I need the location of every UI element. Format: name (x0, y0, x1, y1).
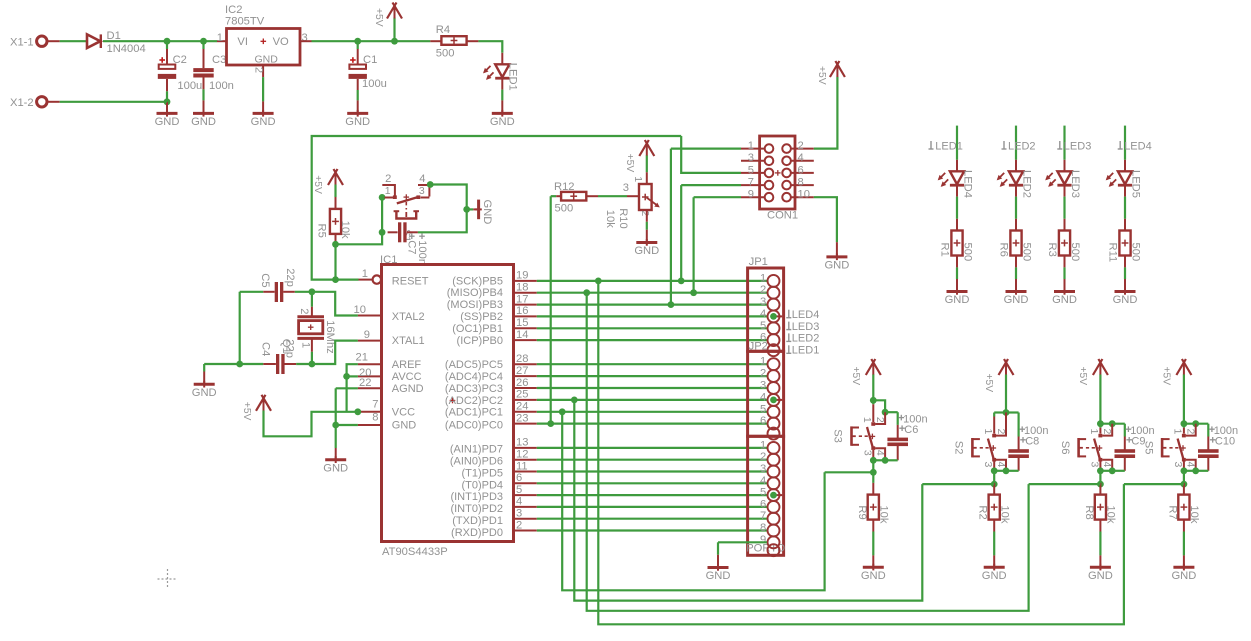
svg-text:IC2: IC2 (225, 4, 242, 16)
switch S5 pin3 lead (1182, 458, 1186, 462)
sheet origin cross (158, 578, 178, 580)
wire S5 rail (1184, 470, 1196, 472)
wire S3 rail (873, 459, 885, 461)
svg-text:C4: C4 (260, 342, 272, 356)
svg-text:AREF: AREF (392, 359, 422, 371)
svg-text:(AIN0)PD6: (AIN0)PD6 (450, 456, 503, 468)
wire crystal pin2 to net (311, 292, 313, 307)
svg-text:(ADC2)PC2: (ADC2)PC2 (445, 395, 503, 407)
junction S6 pin2 branch (1109, 420, 1116, 427)
wire CON1 pin1 MOSI (671, 148, 741, 150)
wire C8 to rail (1018, 456, 1020, 471)
svg-text:GND: GND (481, 200, 493, 225)
wire R4 to LED1 (478, 41, 502, 53)
capacitor C4 22p (240, 363, 264, 365)
svg-text:(TXD)PD1: (TXD)PD1 (452, 515, 503, 527)
wire PB0 row to JP1 pin6 (537, 339, 767, 341)
connector JP2 pins (768, 358, 780, 370)
wire net LED1 stub (956, 126, 958, 160)
svg-text:10: 10 (354, 304, 366, 316)
svg-text:1: 1 (299, 342, 311, 348)
ground below C1 (347, 112, 368, 115)
svg-text:10: 10 (798, 189, 810, 201)
svg-text:X1-2: X1-2 (10, 97, 34, 109)
switch S5 pin1 lead (1183, 424, 1185, 428)
svg-text:1: 1 (760, 272, 766, 284)
wire GND pin row (336, 424, 358, 426)
svg-text:R8: R8 (1083, 505, 1095, 519)
svg-text:+5V: +5V (850, 367, 861, 386)
CON1 right pads and stubs (791, 148, 814, 150)
junction PB3/CON1 riser (668, 301, 675, 308)
svg-text:5: 5 (760, 403, 766, 415)
wire net LED2 stub (1015, 126, 1017, 160)
junction S3 pin1 branch (870, 397, 877, 404)
svg-text:VCC: VCC (392, 407, 415, 419)
wire XTAL2 net row with C5 (240, 291, 264, 293)
svg-text:C5: C5 (259, 273, 271, 287)
wire +5V net IC2 to C1 to R4 (312, 40, 431, 42)
wire CON1 pin9 riser down to PB4 (692, 197, 694, 293)
wire R2 to ground (993, 520, 995, 532)
capacitor C8 100n (1008, 449, 1029, 453)
svg-text:26: 26 (516, 377, 528, 389)
wire +5V to VCC pin (264, 411, 358, 437)
svg-text:(INT1)PD3: (INT1)PD3 (450, 491, 503, 503)
svg-text:3: 3 (1088, 462, 1100, 468)
capacitor C5 22p (275, 282, 278, 302)
svg-text:13: 13 (516, 437, 528, 449)
svg-text:18: 18 (516, 282, 528, 294)
switch S6 pin4 lead (1102, 460, 1112, 471)
wire R12 to trimmer R10 (598, 195, 627, 197)
net label LED1 (930, 141, 932, 149)
IC2 pin 2 stub and label (262, 65, 264, 77)
net label LED2 (788, 333, 790, 341)
wire PC0 row to JP2 pin6 (537, 423, 767, 425)
svg-text:(OC1)PB1: (OC1)PB1 (452, 323, 503, 335)
svg-text:R2: R2 (977, 505, 989, 519)
switch S1 pin2 lead (382, 185, 395, 196)
switch S3 lever (867, 427, 873, 449)
wire C6 to rail (897, 444, 899, 460)
svg-text:10k: 10k (339, 221, 351, 239)
svg-text:GND: GND (345, 116, 370, 128)
svg-text:(AIN1)PD7: (AIN1)PD7 (450, 444, 503, 456)
junction S1 pin4 (427, 181, 434, 188)
resistor R8 10k (1095, 495, 1106, 520)
wire PD4 row to PORTD pin4 (537, 482, 767, 484)
wire C5 left down to C4 row (239, 292, 241, 364)
ground below R1 (947, 290, 968, 293)
svg-text:1: 1 (760, 439, 766, 451)
switch S3 bracket (850, 426, 853, 445)
svg-text:IC1: IC1 (380, 254, 397, 266)
svg-text:22p: 22p (283, 339, 295, 358)
switch S1 pin1 lead (385, 197, 394, 199)
svg-text:GND: GND (1004, 294, 1029, 306)
junction C7 left (379, 229, 386, 236)
junction PC2 switch riser (571, 397, 578, 404)
junction S3 rail (870, 457, 877, 464)
microcontroller IC1 AT90S4433P body (382, 265, 514, 542)
wire CON1 pin5 RESET (681, 136, 741, 173)
junction +5V at C1 (354, 38, 361, 45)
wire S3 exit run (825, 471, 874, 473)
capacitor C6 100n (887, 438, 908, 442)
switch S1 pin4 lead (418, 184, 429, 186)
svg-text:GND: GND (251, 116, 276, 128)
svg-text:+5V: +5V (241, 402, 252, 421)
wire S6 branch to pin2 and C9 (1100, 423, 1124, 425)
svg-text:12: 12 (516, 449, 528, 461)
svg-text:14: 14 (516, 329, 528, 341)
svg-text:4: 4 (1185, 462, 1197, 468)
svg-text:25: 25 (516, 389, 528, 401)
svg-text:XTAL1: XTAL1 (392, 335, 425, 347)
svg-text:100u: 100u (177, 80, 202, 92)
svg-text:S6: S6 (1059, 441, 1071, 455)
net label LED2 (1003, 141, 1005, 149)
wire PC4 row to JP2 pin2 (537, 375, 767, 377)
ground below R9 (863, 566, 884, 569)
svg-text:6: 6 (798, 164, 804, 176)
svg-text:C3: C3 (212, 54, 226, 66)
switch S2 lever (988, 439, 994, 461)
svg-text:5: 5 (760, 320, 766, 332)
svg-text:5: 5 (760, 487, 766, 499)
wire C9 to rail (1124, 456, 1126, 471)
connector PORTD body (748, 436, 784, 555)
svg-text:+5V: +5V (373, 8, 384, 27)
ground below R6 (1006, 290, 1027, 293)
svg-text:+5V: +5V (1161, 367, 1172, 386)
svg-text:4: 4 (798, 152, 804, 164)
svg-text:500: 500 (436, 47, 455, 59)
resistor R1 500 (951, 231, 962, 256)
wire R1 to ground (956, 256, 958, 268)
svg-text:LED3: LED3 (792, 321, 820, 333)
CON1 left pads and stubs (741, 148, 765, 150)
wire net LED4 stub (1124, 126, 1126, 160)
svg-text:C8: C8 (1025, 436, 1039, 448)
resistor R5 10k (335, 197, 337, 209)
svg-text:5: 5 (516, 484, 522, 496)
svg-text:GND: GND (192, 387, 217, 399)
svg-text:GND: GND (1171, 570, 1196, 582)
junction at sideways ground (463, 206, 470, 213)
svg-text:6: 6 (760, 415, 766, 427)
svg-text:2: 2 (1185, 429, 1197, 435)
svg-text:+5V: +5V (1077, 367, 1088, 386)
wire PD3 row to PORTD pin5 (537, 494, 767, 496)
wire S5 exit to resistor R7 (1183, 483, 1185, 484)
switch S1 lever (397, 197, 420, 204)
ground below R7 (1173, 566, 1194, 569)
capacitor C10 100n (1198, 449, 1219, 453)
svg-text:(SCK)PB5: (SCK)PB5 (452, 275, 503, 287)
junction JP1 pin4 pass-through (774, 315, 783, 317)
wire R7 to ground (1183, 520, 1185, 532)
svg-text:4: 4 (760, 475, 766, 487)
svg-text:3: 3 (302, 32, 308, 44)
junction S5 pin1 branch (1181, 420, 1188, 427)
junction S6 exit (1097, 481, 1104, 488)
svg-text:7: 7 (748, 177, 754, 189)
wire S2 rail (994, 470, 1006, 472)
svg-text:9: 9 (760, 534, 766, 546)
net label LED1 (788, 345, 790, 353)
wire S2 exit to resistor R2 (993, 483, 995, 484)
resistor R7 10k (1178, 495, 1189, 520)
svg-text:S5: S5 (1142, 441, 1154, 455)
wire GND row down to ground (335, 425, 337, 448)
svg-text:21: 21 (356, 352, 368, 364)
wire S6 rail to exit (1099, 471, 1101, 484)
junction S2 branch (1003, 409, 1010, 416)
wire to sideways ground (467, 208, 474, 210)
junction S3 exit (870, 469, 877, 476)
junction S3 pin2 branch (882, 409, 889, 416)
wire LED4 to R1 (956, 185, 958, 196)
svg-text:28: 28 (516, 353, 528, 365)
svg-text:JP2: JP2 (749, 340, 768, 352)
svg-text:2: 2 (385, 173, 391, 185)
switch S5 pin2 lead (1186, 424, 1196, 436)
voltage regulator IC2 7805TV (227, 29, 301, 66)
svg-text:GND: GND (634, 245, 659, 257)
svg-text:LED2: LED2 (792, 333, 820, 345)
+5V supply symbol at S5 (1176, 359, 1186, 375)
junction R5 bottom (332, 241, 339, 248)
wire PC5 row to JP2 pin1 (537, 363, 767, 365)
svg-text:3: 3 (760, 296, 766, 308)
net label LED4 (788, 310, 790, 318)
wire S3 rail to exit (872, 460, 874, 472)
wire PD7 row to PORTD pin1 (537, 447, 767, 449)
svg-text:1: 1 (1088, 429, 1100, 435)
svg-text:R9: R9 (856, 505, 868, 519)
svg-text:+5V: +5V (983, 374, 994, 393)
trimmer R10 10k (639, 184, 652, 210)
crystal Q1 16Mhz (297, 315, 324, 318)
svg-text:(ADC3)PC3: (ADC3)PC3 (445, 383, 503, 395)
resistor R11 500 (1119, 231, 1130, 256)
svg-text:GND: GND (155, 116, 180, 128)
svg-text:CON1: CON1 (767, 209, 798, 221)
svg-text:(MISO)PB4: (MISO)PB4 (447, 287, 503, 299)
svg-text:8: 8 (760, 522, 766, 534)
connector PORTD pins (768, 442, 780, 454)
junction crystal pin1 at C4 row (309, 361, 316, 368)
LED LED2 (1009, 171, 1023, 184)
svg-text:GND: GND (1052, 294, 1077, 306)
svg-text:3: 3 (861, 450, 873, 456)
wire CON1 pin1 riser down to PB3 (670, 149, 672, 305)
junction PORTD pin5 pass-through (774, 494, 783, 496)
svg-text:R4: R4 (436, 24, 450, 36)
svg-text:3: 3 (623, 182, 629, 194)
svg-text:2: 2 (798, 140, 804, 152)
wire PC3 row to JP2 pin3 (537, 387, 767, 389)
svg-text:+5V: +5V (312, 175, 323, 194)
svg-text:LED4: LED4 (792, 309, 820, 321)
svg-text:C1: C1 (363, 54, 377, 66)
svg-text:S3: S3 (832, 429, 844, 443)
svg-text:1: 1 (632, 176, 644, 182)
svg-text:(ADC4)PC4: (ADC4)PC4 (445, 371, 503, 383)
wire C10 to rail (1207, 456, 1209, 471)
ground below R10 (636, 241, 657, 244)
svg-text:3: 3 (982, 462, 994, 468)
svg-text:4: 4 (760, 391, 766, 403)
wire AGND net (336, 387, 358, 389)
svg-text:2: 2 (298, 308, 310, 314)
wire R10 pin2 to ground (646, 210, 648, 222)
svg-text:XTAL2: XTAL2 (392, 311, 425, 323)
junction S2 exit (991, 481, 998, 488)
LED LED5 (1118, 171, 1132, 184)
svg-text:500: 500 (961, 243, 973, 262)
svg-text:(ADC5)PC5: (ADC5)PC5 (445, 359, 503, 371)
svg-text:(RXD)PD0: (RXD)PD0 (451, 527, 503, 539)
+5V supply symbol at CON1 (830, 61, 840, 77)
wire R12 riser down to PC0 row (550, 196, 552, 423)
wire AREF net riser (347, 364, 358, 412)
junction S6 pin1 branch (1097, 420, 1104, 427)
svg-text:(INT0)PD2: (INT0)PD2 (450, 503, 503, 515)
+5V supply symbol at VCC (256, 395, 266, 411)
net label LED3 (1059, 141, 1061, 149)
wire S2 exit run (922, 483, 994, 485)
wire PB1 row to JP1 pin5 (537, 327, 767, 329)
svg-text:3: 3 (1172, 462, 1184, 468)
connector JP1 pins (768, 275, 780, 287)
wire RESET to IC1 pin1 (336, 279, 359, 281)
svg-text:VO: VO (273, 36, 289, 48)
svg-text:GND: GND (861, 570, 886, 582)
svg-text:1: 1 (760, 356, 766, 368)
svg-text:1: 1 (1172, 429, 1184, 435)
wire CON1 pin7 riser down to PB5 (680, 185, 682, 281)
ground below IC2 (253, 112, 274, 115)
switch S1 actuator (405, 202, 407, 210)
svg-text:22: 22 (359, 377, 371, 389)
svg-text:2: 2 (760, 451, 766, 463)
capacitor C9 100n (1115, 449, 1136, 453)
svg-text:3: 3 (748, 152, 754, 164)
svg-text:100n: 100n (209, 80, 234, 92)
wire C4 row to ground branch (204, 363, 240, 365)
connector JP2 body (748, 351, 784, 436)
svg-text:24: 24 (516, 401, 528, 413)
svg-text:GND: GND (191, 116, 216, 128)
junction VCC (354, 408, 361, 415)
switch S2 pin1 lead (993, 413, 995, 417)
IC1 pin1 inversion bubble (373, 275, 381, 283)
svg-text:LED3: LED3 (1069, 170, 1081, 198)
svg-text:1N4004: 1N4004 (107, 43, 146, 55)
wire switch S2 net riser from PC2 (574, 400, 922, 601)
wire S2 branch to C8 (1006, 411, 1019, 413)
wire S3 branch to pin2 (873, 400, 885, 412)
svg-text:GND: GND (1088, 570, 1113, 582)
svg-text:S2: S2 (953, 441, 965, 455)
switch S2 pin2 lead (996, 413, 1006, 436)
wire PORTD pin9 to ground (718, 541, 767, 543)
svg-text:GND: GND (323, 462, 348, 474)
svg-text:22p: 22p (284, 268, 296, 287)
wire S2 rail to exit (993, 471, 995, 484)
svg-text:8: 8 (798, 177, 804, 189)
svg-text:R7: R7 (1166, 505, 1178, 519)
junction PB5/CON1 riser (595, 278, 602, 285)
svg-text:+5V: +5V (624, 154, 635, 173)
junction PC1 switch riser (559, 408, 566, 415)
wire LED2 to R6 (1015, 185, 1017, 196)
svg-text:RESET: RESET (392, 275, 429, 287)
svg-text:27: 27 (516, 365, 528, 377)
wire VIN net D1 to IC2 pin1 (103, 40, 217, 42)
switch S3 pin3 lead (871, 446, 875, 450)
svg-text:4: 4 (1101, 462, 1113, 468)
switch S6 pin1 lead (1099, 424, 1101, 428)
LED LED1 (495, 64, 509, 77)
svg-text:AGND: AGND (392, 383, 424, 395)
wire S5 branch to pin2 and C10 (1184, 423, 1208, 425)
junction S5 pin2 branch (1192, 420, 1199, 427)
wire R6 to ground (1015, 256, 1017, 268)
resistor R3 500 (1059, 231, 1070, 256)
svg-text:C7: C7 (405, 240, 417, 254)
svg-text:7805TV: 7805TV (225, 15, 265, 27)
switch S6 pin3 lead (1098, 458, 1102, 462)
switch S2 pin3 lead (992, 458, 996, 462)
svg-text:LED2: LED2 (1020, 170, 1032, 198)
svg-text:100n: 100n (416, 240, 428, 265)
capacitor C7 100n (388, 231, 398, 233)
wire switch S3 net riser from PC1 (562, 412, 824, 591)
junction JP2 pin4 pass-through (774, 399, 783, 401)
wire CON1 pin2 to +5V (814, 77, 838, 149)
svg-text:15: 15 (516, 317, 528, 329)
svg-text:(ADC1)PC1: (ADC1)PC1 (445, 407, 503, 419)
svg-text:GND: GND (255, 54, 279, 66)
svg-text:3: 3 (760, 463, 766, 475)
svg-text:2: 2 (1101, 429, 1113, 435)
wire PC2 row to JP2 pin4 (537, 399, 767, 401)
svg-text:10k: 10k (878, 505, 890, 523)
svg-text:5: 5 (748, 164, 754, 176)
wire R5 bottom to switch S1 and C7 (336, 197, 383, 244)
svg-text:LED1: LED1 (792, 345, 820, 357)
capacitor C3 100n (202, 41, 204, 49)
junction RESET at R5 (332, 276, 339, 283)
svg-text:R6: R6 (997, 243, 1009, 257)
IC1 XTAL1 pin stub (358, 340, 382, 342)
wire R9 to ground (872, 520, 874, 532)
wire C4 to XTAL1 riser (296, 341, 358, 364)
svg-text:1: 1 (748, 140, 754, 152)
svg-text:16Mhz: 16Mhz (324, 320, 336, 354)
svg-text:2: 2 (995, 429, 1007, 435)
wire PD1 row to PORTD pin7 (537, 518, 767, 520)
svg-text:500: 500 (1020, 243, 1032, 262)
wire PC1 row to JP2 pin5 (537, 411, 767, 413)
resistor R2 10k (989, 495, 1000, 520)
switch S5 bracket (1161, 438, 1164, 457)
svg-text:6: 6 (516, 472, 522, 484)
